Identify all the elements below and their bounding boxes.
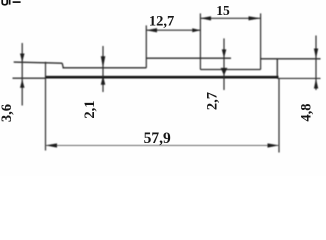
57,9 left extension line (profile left edge continued) <box>45 62 47 151</box>
svg-text:4,8: 4,8 <box>299 103 315 121</box>
tongue left edge and 12,7 extension line <box>145 25 147 67</box>
57,9 right extension line <box>278 79 280 153</box>
profile right edge <box>276 59 278 79</box>
svg-text:2,7: 2,7 <box>205 92 221 110</box>
dimension line 57,9 <box>46 144 280 146</box>
dimension line 3,6 (vertical) <box>21 43 23 106</box>
profile bottom surface (thick) <box>45 76 279 79</box>
4,8 bottom extension line <box>277 77 320 79</box>
svg-text:15: 15 <box>216 3 230 18</box>
svg-text:12,7: 12,7 <box>149 13 174 29</box>
right block top surface with 4,8 extension <box>261 58 321 60</box>
dimension line 4,8 (vertical) <box>315 36 317 91</box>
dimension line 12,7 <box>146 29 200 31</box>
svg-text:57,9: 57,9 <box>144 130 171 147</box>
tongue right edge and 12,7 / 15 extension line <box>199 13 201 69</box>
dimension line 15 <box>200 17 260 19</box>
profile middle surface <box>63 67 147 69</box>
clipped corner text (bottom of digits) <box>2 0 7 5</box>
3,6 bottom extension line <box>13 77 46 79</box>
dimension line 2,7 (vertical) <box>223 38 225 90</box>
dimension line 2,1 (vertical) <box>102 46 104 92</box>
profile step down at x62 <box>62 63 63 68</box>
right block left edge and 15 extension line <box>260 13 262 69</box>
svg-text:2,1: 2,1 <box>82 100 98 118</box>
tongue top surface with 2,7 extension <box>146 57 231 59</box>
profile top-left surface with 3,6 extension <box>14 62 63 63</box>
svg-text:3,6: 3,6 <box>0 104 15 122</box>
recess surface <box>200 69 260 71</box>
